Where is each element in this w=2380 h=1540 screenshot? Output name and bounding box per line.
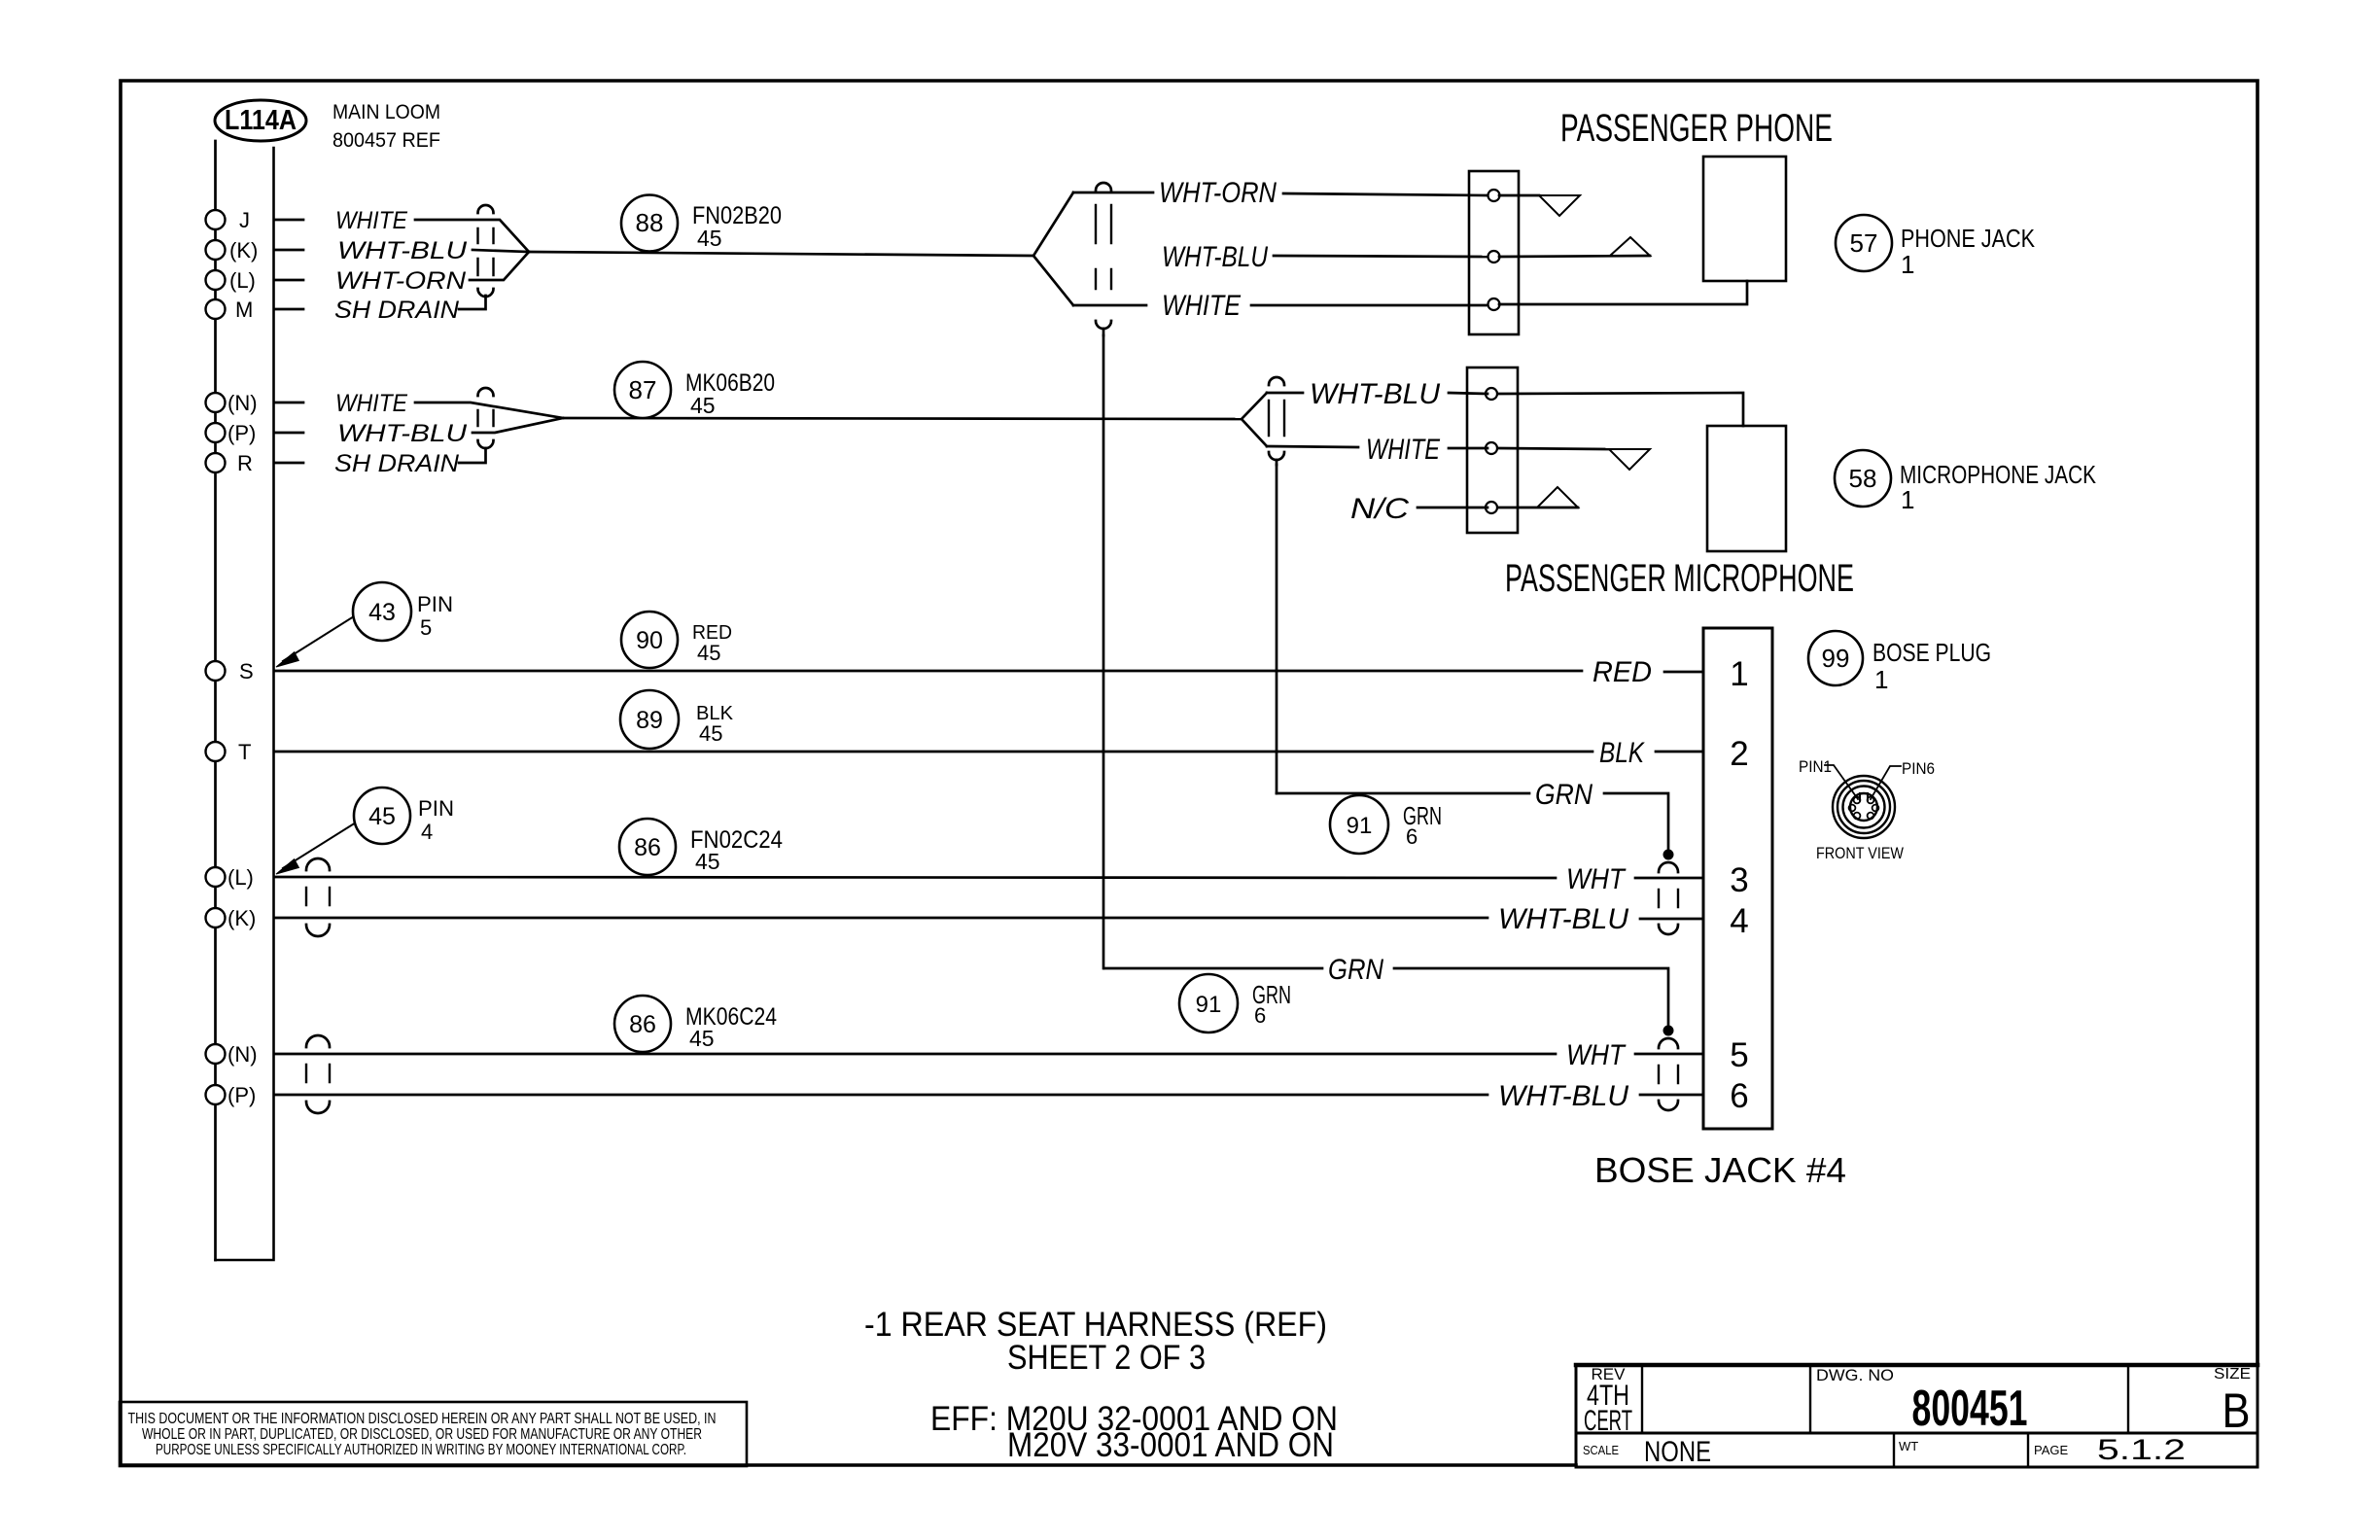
pin P circle (206, 423, 226, 442)
tick J (274, 219, 303, 222)
svg-text:SCALE: SCALE (1583, 1443, 1619, 1457)
svg-text:91: 91 (1347, 813, 1373, 839)
pin P2 circle (206, 1085, 226, 1104)
title block verticals row1 (1642, 1365, 2128, 1433)
svg-text:NONE: NONE (1644, 1436, 1711, 1468)
svg-text:(L): (L) (227, 865, 254, 890)
cable 87 through wire (563, 418, 1242, 419)
svg-text:(K): (K) (227, 906, 256, 930)
svg-text:6: 6 (1406, 824, 1417, 849)
svg-text:45: 45 (697, 226, 722, 251)
svg-text:M: M (235, 297, 253, 322)
svg-text:WHT-BLU: WHT-BLU (1310, 378, 1440, 410)
ref circle 43 (353, 582, 411, 641)
bottom border line (121, 1463, 1576, 1467)
shield termination triangle up (phone) (1610, 237, 1650, 256)
svg-text:2: 2 (1730, 735, 1748, 773)
wire WHITE strip to triangle (1499, 448, 1609, 449)
svg-text:99: 99 (1822, 644, 1850, 673)
svg-text:90: 90 (636, 627, 663, 654)
twist symbol bose pins 3/4 (1659, 862, 1678, 872)
svg-text:N/C: N/C (1350, 493, 1409, 525)
ref circle 58 (1835, 450, 1891, 507)
svg-text:WHITE: WHITE (335, 390, 407, 417)
svg-text:BOSE JACK #4: BOSE JACK #4 (1594, 1150, 1846, 1190)
disclaimer box (120, 1402, 747, 1466)
svg-text:SH DRAIN: SH DRAIN (334, 297, 460, 324)
svg-text:1: 1 (1901, 250, 1914, 279)
svg-text:45: 45 (695, 849, 720, 874)
svg-text:88: 88 (636, 208, 664, 237)
pin N circle (206, 393, 226, 412)
tick L (274, 279, 303, 282)
phone terminal strip (1469, 171, 1519, 334)
cable 88 wire WHITE segment (415, 220, 529, 252)
svg-text:91: 91 (1196, 992, 1222, 1018)
svg-text:WHT-BLU: WHT-BLU (337, 237, 468, 264)
connector L114A bar (216, 148, 274, 1260)
cable 87 twist shield symbol (478, 388, 494, 396)
svg-text:WHITE: WHITE (1162, 290, 1242, 322)
svg-text:WHT-BLU: WHT-BLU (1162, 241, 1268, 273)
shield termination triangle up (mic) (1537, 487, 1578, 507)
svg-text:RED: RED (1592, 656, 1652, 688)
svg-text:B: B (2222, 1383, 2251, 1438)
ref circle 57 (1836, 215, 1892, 271)
tick P (274, 432, 303, 435)
cable 88 wire WHT-ORN segment (470, 252, 529, 280)
svg-text:800451: 800451 (1912, 1381, 2028, 1437)
svg-text:PIN: PIN (417, 592, 453, 616)
svg-text:86: 86 (634, 834, 661, 861)
twist symbol pins L2/K2 (306, 858, 330, 870)
svg-text:PHONE JACK: PHONE JACK (1901, 224, 2036, 253)
svg-text:58: 58 (1849, 464, 1877, 493)
svg-text:6: 6 (1730, 1077, 1748, 1115)
svg-text:L114A: L114A (225, 105, 297, 136)
wire WHITE to mic strip (1267, 446, 1487, 448)
svg-text:DWG. NO: DWG. NO (1816, 1366, 1894, 1384)
cable 88 twist shield symbol (478, 205, 494, 213)
pin J circle (206, 210, 226, 229)
ref circle 89 (620, 690, 679, 749)
svg-text:WHT: WHT (1566, 863, 1627, 895)
title block row divider (1576, 1432, 2257, 1435)
wire S RED (274, 671, 1703, 672)
svg-text:BLK: BLK (1599, 737, 1646, 769)
svg-text:FRONT VIEW: FRONT VIEW (1816, 844, 1904, 862)
svg-text:PASSENGER MICROPHONE: PASSENGER MICROPHONE (1505, 557, 1854, 600)
svg-text:WHOLE OR IN PART, DUPLICATED,: WHOLE OR IN PART, DUPLICATED, OR DISCLOS… (142, 1426, 702, 1443)
svg-text:PASSENGER PHONE: PASSENGER PHONE (1560, 107, 1833, 150)
svg-text:PIN6: PIN6 (1902, 759, 1935, 778)
mic shield drain wire (vertical) (1276, 465, 1278, 793)
svg-text:4: 4 (421, 820, 433, 844)
svg-text:MICROPHONE JACK: MICROPHONE JACK (1900, 460, 2097, 489)
svg-text:(N): (N) (227, 1042, 258, 1067)
pin K2 circle (206, 908, 226, 927)
tick N (274, 402, 303, 404)
svg-text:5: 5 (1730, 1036, 1748, 1074)
svg-text:89: 89 (636, 707, 663, 734)
svg-text:1: 1 (1901, 485, 1914, 514)
wire WHT-ORN to phone strip (1073, 192, 1487, 195)
svg-text:SIZE: SIZE (2214, 1366, 2251, 1382)
cable 87 shield drain hook (459, 448, 486, 463)
wire WHT-BLU strip to mic jack (1499, 393, 1743, 426)
shield termination triangle down (mic) (1609, 449, 1650, 470)
svg-text:MAIN LOOM: MAIN LOOM (332, 101, 440, 123)
svg-text:WHITE: WHITE (1366, 434, 1441, 466)
svg-text:THIS DOCUMENT OR THE INFORMATI: THIS DOCUMENT OR THE INFORMATION DISCLOS… (128, 1411, 717, 1427)
wire P2 WHT-BLU (274, 1094, 1703, 1097)
ref circle 91a (1330, 795, 1388, 854)
svg-text:WHT: WHT (1566, 1039, 1627, 1071)
shield termination triangle down (phone) (1539, 195, 1580, 216)
svg-text:M20V 33-0001 AND ON: M20V 33-0001 AND ON (1007, 1426, 1334, 1464)
svg-text:45: 45 (368, 803, 396, 830)
svg-text:SH DRAIN: SH DRAIN (334, 450, 460, 477)
svg-text:4: 4 (1730, 902, 1748, 940)
pin K circle (206, 240, 226, 260)
svg-text:CERT: CERT (1584, 1405, 1632, 1437)
cable 87 wire WHITE segment (415, 402, 563, 418)
svg-text:(N): (N) (227, 391, 258, 415)
pin M circle (206, 299, 226, 319)
ref circle 99 (1808, 631, 1863, 685)
cable 88 through wire (529, 252, 1033, 256)
svg-text:WHT-ORN: WHT-ORN (335, 267, 467, 295)
svg-text:45: 45 (690, 393, 716, 418)
leader PIN6 (1871, 766, 1901, 799)
svg-text:1: 1 (1730, 655, 1748, 693)
svg-text:(K): (K) (229, 238, 258, 262)
svg-text:WHT-BLU: WHT-BLU (337, 420, 468, 447)
title block outer (1576, 1365, 2257, 1467)
tick M (274, 308, 303, 311)
svg-text:S: S (239, 659, 254, 683)
wire strip to shield triangle 1 (1499, 194, 1539, 197)
svg-text:BOSE PLUG: BOSE PLUG (1872, 638, 1991, 667)
pin N2 circle (206, 1044, 226, 1064)
svg-text:45: 45 (699, 721, 722, 746)
wire N2 WHT (274, 1053, 1703, 1056)
wire WHT-BLU to mic strip (1267, 393, 1487, 394)
ref circle 86a (619, 819, 676, 875)
BOSE jack 4 box (1703, 628, 1772, 1129)
GRN lower wire (phone shield to bose) (1104, 968, 1668, 1025)
wire strip pin2 (1499, 256, 1650, 257)
svg-text:PIN: PIN (418, 796, 454, 821)
svg-text:R: R (237, 451, 253, 475)
svg-text:43: 43 (368, 599, 396, 626)
svg-text:WHT-BLU: WHT-BLU (1498, 903, 1628, 935)
ref circle 87 (614, 362, 671, 418)
wire WHT-BLU to phone strip (1274, 256, 1487, 257)
phone shield drain wire (vertical) (1102, 335, 1105, 968)
bose plug front view connector (1833, 776, 1895, 838)
tick K (274, 249, 303, 252)
svg-text:1: 1 (1874, 665, 1888, 694)
cable 88 shield drain hook (459, 296, 486, 309)
svg-text:6: 6 (1254, 1003, 1266, 1028)
svg-text:T: T (238, 740, 251, 764)
junction dot lower (1663, 1026, 1674, 1036)
svg-text:800457 REF: 800457 REF (332, 129, 440, 152)
phone jack box (1703, 157, 1786, 281)
phone cable shield twist symbol (1096, 183, 1111, 191)
pin R circle (206, 453, 226, 472)
cable 87 right fan (1242, 393, 1267, 446)
svg-text:(P): (P) (227, 421, 256, 445)
cable 88 wire WHT-BLU segment (472, 250, 529, 252)
svg-text:86: 86 (629, 1011, 656, 1038)
leader arrow circle 43 (283, 616, 354, 661)
svg-text:5.1.2: 5.1.2 (2097, 1434, 2186, 1466)
pin L circle (206, 270, 226, 290)
svg-text:GRN: GRN (1535, 779, 1592, 811)
ref circle 86b (614, 996, 671, 1052)
svg-text:PURPOSE UNLESS SPECIFICALLY AU: PURPOSE UNLESS SPECIFICALLY AUTHORIZED I… (156, 1442, 686, 1458)
svg-text:87: 87 (629, 375, 657, 404)
cable 87 wire WHT-BLU segment (472, 418, 563, 433)
ref circle 90 (621, 612, 678, 668)
wire K2 WHT-BLU (274, 918, 1703, 919)
svg-text:PAGE: PAGE (2034, 1443, 2068, 1457)
svg-text:(L): (L) (229, 268, 256, 293)
ref circle 91b (1179, 974, 1238, 1032)
svg-text:45: 45 (689, 1026, 715, 1051)
svg-text:WHT-BLU: WHT-BLU (1498, 1080, 1628, 1112)
leader PIN1 (1825, 765, 1858, 799)
svg-text:GRN: GRN (1328, 954, 1383, 986)
ref circle 45 (354, 787, 410, 844)
svg-text:PIN1: PIN1 (1799, 757, 1832, 776)
mic jack box (1707, 426, 1786, 551)
svg-text:WT: WT (1899, 1439, 1918, 1453)
wire WHITE to phone strip (1073, 304, 1487, 307)
ref circle 88 (621, 195, 678, 252)
connector L114A oval tag (215, 100, 306, 141)
svg-text:5: 5 (420, 615, 432, 640)
svg-text:3: 3 (1730, 861, 1748, 899)
tick R (274, 462, 303, 465)
wire T BLK (274, 751, 1703, 753)
cable 88 right fan (1033, 192, 1073, 305)
connector L114A pin line (214, 141, 217, 1260)
mic terminal strip (1467, 367, 1518, 533)
svg-text:SHEET 2 OF 3: SHEET 2 OF 3 (1007, 1339, 1206, 1377)
svg-text:57: 57 (1850, 228, 1878, 258)
svg-text:WHT-ORN: WHT-ORN (1159, 177, 1277, 209)
svg-text:(P): (P) (227, 1083, 256, 1107)
junction dot upper (1663, 850, 1674, 860)
twist symbol pins N2/P2 (306, 1035, 330, 1047)
svg-text:J: J (239, 208, 250, 232)
pin T circle (206, 742, 226, 761)
svg-text:WHITE: WHITE (335, 207, 407, 234)
leader arrow circle 45 (283, 822, 356, 868)
svg-text:45: 45 (697, 641, 720, 665)
wire N/C (1417, 507, 1578, 509)
pin S circle (206, 661, 226, 681)
title block verticals row2 (1894, 1433, 2028, 1467)
pin L2 circle (206, 867, 226, 887)
mic cable shield twist symbol (1269, 377, 1284, 385)
wire L2 WHT (274, 877, 1703, 878)
wire strip pin3 to phone jack (1499, 281, 1747, 304)
twist symbol bose pins 5/6 (1659, 1038, 1678, 1048)
GRN upper wire (mic shield to bose) (1277, 793, 1668, 850)
